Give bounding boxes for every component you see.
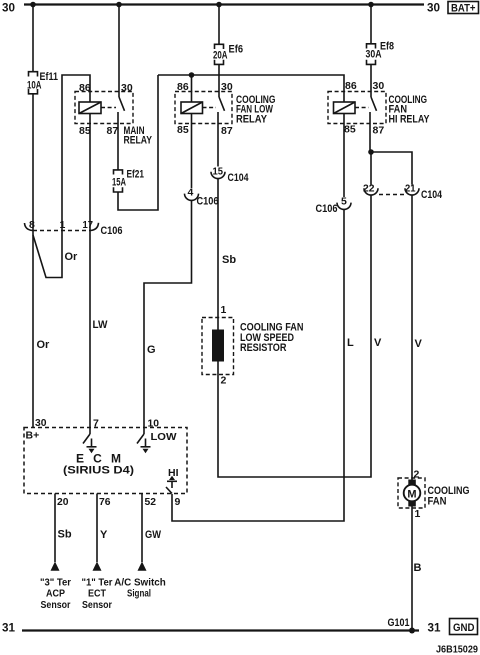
wire bus to Ef6	[218, 5, 220, 45]
wire hi relay 87 down	[369, 112, 371, 152]
svg-text:30: 30	[221, 81, 233, 93]
relay U-hi box	[328, 92, 386, 124]
wire low relay 85 to C106 pin4	[191, 114, 193, 189]
svg-text:C106: C106	[101, 225, 123, 237]
svg-text:Ef6: Ef6	[229, 43, 244, 55]
svg-text:2: 2	[221, 375, 227, 387]
svg-text:30: 30	[2, 1, 15, 15]
wire ECM pin52 to A/C switch (GW)	[141, 494, 143, 563]
svg-text:30: 30	[35, 417, 47, 429]
svg-text:1: 1	[221, 304, 227, 316]
svg-text:L: L	[347, 337, 354, 349]
resistor cooling fan low speed box	[202, 318, 234, 375]
svg-text:85: 85	[177, 124, 189, 136]
svg-text:LOW: LOW	[151, 431, 177, 443]
wire pin21 to fan motor	[411, 195, 413, 480]
relay low coil	[181, 102, 203, 114]
fuse Ef8 30A	[367, 44, 376, 49]
node bus-Ef8	[368, 2, 374, 8]
ECM driver pin9	[169, 476, 175, 480]
node bus-Ef6	[216, 2, 222, 8]
svg-text:Ef21: Ef21	[127, 169, 145, 181]
svg-text:C106: C106	[197, 196, 219, 208]
ECM driver pin10	[143, 428, 145, 435]
wire Ef6 to low relay 30	[218, 64, 220, 97]
svg-text:10: 10	[148, 418, 160, 430]
svg-text:M: M	[407, 488, 416, 500]
svg-text:V: V	[374, 337, 382, 349]
svg-text:ACP: ACP	[46, 588, 65, 600]
node feed to low relay coil	[189, 72, 195, 78]
wire ECM pin76 to ECT sensor (Y)	[96, 494, 98, 563]
wire 86 feed line	[158, 75, 344, 102]
svg-text:5: 5	[341, 196, 347, 208]
svg-text:ECT: ECT	[88, 588, 107, 600]
wire resistor pin2 to V riser	[218, 195, 371, 477]
wire 87 node to pin22	[370, 152, 372, 185]
switch hi relay	[371, 97, 377, 111]
svg-text:Ef8: Ef8	[380, 41, 394, 53]
svg-text:Or: Or	[65, 251, 79, 263]
svg-text:C106: C106	[316, 203, 338, 215]
wire C106 pin8 jog to pin1	[33, 231, 62, 278]
svg-text:Signal: Signal	[127, 588, 151, 600]
wire hi relay 85 to C106 pin5	[343, 114, 345, 198]
svg-text:G: G	[147, 344, 156, 356]
svg-text:4: 4	[188, 187, 194, 199]
svg-text:Sb: Sb	[58, 529, 72, 541]
svg-text:RESISTOR: RESISTOR	[240, 342, 287, 354]
svg-text:30: 30	[373, 80, 385, 92]
wire top bus 30	[24, 3, 424, 5]
wire pin15 to resistor (Sb)	[217, 179, 219, 330]
svg-text:C104: C104	[421, 189, 443, 201]
switch main relay	[119, 97, 125, 111]
svg-text:17: 17	[83, 219, 94, 231]
node G101	[409, 628, 415, 634]
wire Ef8 to hi relay 30	[370, 64, 372, 97]
node bus-Ef11	[30, 2, 36, 8]
wire motor to ground bus (B)	[411, 507, 413, 631]
relay U-main box	[75, 92, 133, 124]
svg-text:20A: 20A	[213, 49, 228, 61]
svg-text:15: 15	[213, 166, 224, 178]
svg-text:9: 9	[175, 496, 181, 508]
resistor element	[212, 330, 224, 362]
motor M circle	[404, 485, 421, 502]
wire coil link dashed	[203, 107, 217, 109]
relay hi coil	[334, 102, 356, 114]
motor terminal top	[408, 480, 416, 486]
svg-text:Sensor: Sensor	[41, 599, 71, 611]
fuse Ef21 15A	[114, 170, 123, 175]
svg-text:HI RELAY: HI RELAY	[389, 114, 431, 126]
wire main relay 30 from bus	[118, 5, 120, 98]
svg-text:85: 85	[79, 125, 91, 137]
fuse Ef11 10A	[29, 72, 38, 77]
svg-text:87: 87	[373, 125, 385, 137]
svg-text:15A: 15A	[112, 177, 126, 189]
fuse Ef6 20A	[215, 44, 224, 49]
svg-text:V: V	[415, 338, 423, 350]
node bus-main-relay-30	[116, 2, 122, 8]
motor terminal bottom	[408, 501, 416, 507]
svg-text:31: 31	[428, 621, 441, 635]
svg-text:87: 87	[221, 125, 233, 137]
wire Ef11 to ECM pin30 (Or)	[32, 94, 34, 428]
wire pin5 to ECM pin9 (L)	[172, 210, 344, 521]
svg-text:1: 1	[415, 508, 421, 520]
node BAT+	[448, 2, 479, 14]
svg-text:86: 86	[79, 82, 91, 94]
svg-text:86: 86	[345, 80, 357, 92]
wire 87 node to pin21 drop	[371, 152, 412, 185]
svg-text:C104: C104	[228, 172, 250, 184]
relay U-low box	[175, 92, 232, 124]
svg-text:FAN: FAN	[428, 495, 447, 507]
svg-text:31: 31	[2, 621, 15, 635]
wire ECM pin20 to ACP sensor (Sb)	[54, 494, 56, 563]
svg-text:30A: 30A	[366, 49, 382, 61]
svg-text:BAT+: BAT+	[451, 2, 476, 14]
svg-text:Sb: Sb	[222, 254, 236, 266]
svg-text:10A: 10A	[27, 80, 42, 92]
svg-text:G101: G101	[388, 617, 410, 629]
switch low relay	[219, 97, 225, 111]
svg-text:7: 7	[93, 418, 99, 430]
wire pin1 up and to main relay 86	[62, 75, 90, 231]
svg-text:2: 2	[414, 469, 420, 481]
svg-text:30: 30	[427, 1, 440, 15]
svg-text:Sensor: Sensor	[82, 599, 112, 611]
motor cooling fan box	[398, 478, 425, 508]
wire pin4 to ECM pin10 (G)	[144, 201, 192, 428]
wire main relay 85 to ECM pin7 (LW)	[89, 114, 91, 428]
svg-text:RELAY: RELAY	[236, 114, 268, 126]
ECM driver pin7	[89, 428, 91, 435]
svg-text:E C M: E C M	[76, 452, 121, 466]
wire main relay 87 to Ef21	[117, 112, 119, 170]
wire bus to Ef8	[370, 5, 372, 44]
svg-text:RELAY: RELAY	[124, 135, 153, 147]
svg-text:Or: Or	[37, 339, 51, 351]
connector C106 pins 8 1 17	[33, 230, 90, 232]
svg-text:J6B15029: J6B15029	[436, 644, 478, 655]
wire Ef21 to relay-feed riser	[118, 75, 158, 210]
wire coil link dashed	[101, 107, 116, 109]
svg-text:(SIRIUS D4): (SIRIUS D4)	[63, 465, 134, 477]
svg-text:85: 85	[344, 124, 356, 136]
svg-text:LW: LW	[93, 319, 109, 331]
svg-text:GW: GW	[145, 529, 162, 541]
node GND	[450, 619, 478, 635]
svg-text:30: 30	[121, 82, 133, 94]
svg-text:GND: GND	[453, 622, 475, 634]
svg-text:52: 52	[145, 496, 157, 508]
svg-text:B+: B+	[26, 430, 40, 442]
ECM box	[24, 428, 187, 494]
svg-text:HI: HI	[168, 467, 179, 479]
node hi relay 87 split	[368, 149, 374, 155]
svg-text:B: B	[414, 562, 422, 574]
wire low relay 87 down	[217, 112, 219, 167]
wire bottom bus 31	[22, 629, 419, 631]
svg-text:20: 20	[57, 496, 69, 508]
svg-text:Y: Y	[100, 529, 108, 541]
relay main coil	[79, 102, 101, 114]
wire coil link dashed	[355, 107, 369, 109]
svg-text:8: 8	[29, 219, 35, 231]
svg-text:76: 76	[99, 496, 111, 508]
svg-text:86: 86	[177, 81, 189, 93]
wire to low relay coil 86	[191, 75, 193, 102]
svg-text:1: 1	[60, 219, 66, 231]
svg-text:87: 87	[107, 125, 119, 137]
wire bus to Ef11	[32, 5, 34, 72]
svg-text:Ef11: Ef11	[40, 71, 59, 83]
